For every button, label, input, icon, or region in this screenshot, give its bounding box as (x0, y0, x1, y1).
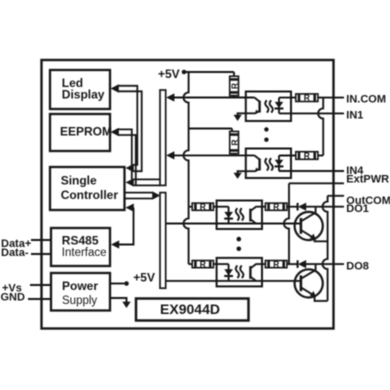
svg-text:+5V: +5V (158, 67, 180, 81)
svg-text:+5V: +5V (133, 270, 155, 284)
svg-text:IN1: IN1 (346, 109, 363, 121)
svg-text:RS485: RS485 (62, 233, 99, 247)
svg-text:Data-: Data- (1, 247, 29, 259)
svg-text:Display: Display (62, 88, 105, 102)
svg-text:GND: GND (1, 291, 26, 303)
svg-text:R: R (304, 151, 310, 161)
svg-text:R: R (273, 259, 279, 269)
svg-text:Power: Power (62, 279, 98, 293)
svg-text:Supply: Supply (62, 295, 97, 307)
svg-text:Controller: Controller (61, 188, 119, 202)
svg-text:Interface: Interface (62, 247, 107, 259)
svg-text:IN.COM: IN.COM (346, 94, 386, 106)
svg-text:R: R (230, 83, 240, 89)
svg-text:EEPROM: EEPROM (60, 125, 112, 139)
svg-text:ExtPWR: ExtPWR (346, 173, 389, 185)
svg-text:R: R (273, 202, 279, 212)
svg-text:R: R (200, 202, 206, 212)
svg-text:DO8: DO8 (346, 260, 369, 272)
svg-text:EX9044D: EX9044D (160, 301, 220, 317)
svg-text:Single: Single (61, 174, 97, 188)
svg-text:R: R (230, 139, 240, 145)
svg-text:DO1: DO1 (346, 203, 369, 215)
svg-text:R: R (304, 93, 310, 103)
svg-text:R: R (200, 259, 206, 269)
